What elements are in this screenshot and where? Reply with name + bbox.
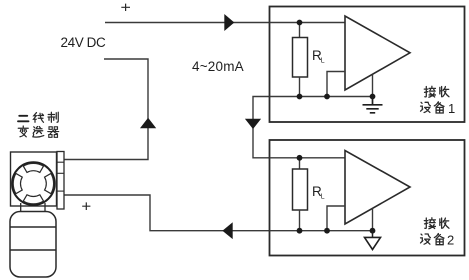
transmitter neck right line bbox=[44, 203, 46, 212]
wire device2 input top bbox=[270, 157, 346, 159]
label 接收 device1 bbox=[424, 86, 449, 97]
svg-text:L: L bbox=[321, 58, 325, 65]
wire U1 output to rail bbox=[372, 75, 374, 97]
transmitter head circle bbox=[12, 162, 55, 205]
junction dot device2 input bbox=[297, 155, 303, 161]
wire U1 inverting input bbox=[327, 72, 345, 97]
wire device1 input top bbox=[270, 22, 346, 24]
node + transmitter positive terminal bbox=[82, 202, 90, 210]
wire top supply line bbox=[105, 22, 270, 24]
junction dot RL2 bottom bbox=[297, 228, 303, 234]
arrow current direction right on top wire bbox=[224, 14, 234, 31]
resistor RL2 bbox=[293, 169, 308, 210]
wire RL1 top stub bbox=[299, 23, 301, 38]
terminal block divider 3 bbox=[57, 190, 64, 192]
wire RL1 bottom stub bbox=[299, 77, 301, 97]
transmitter terminal block bbox=[57, 152, 64, 210]
node + supply positive top bbox=[121, 4, 130, 11]
op-amp U2 bbox=[345, 151, 410, 225]
svg-text:2: 2 bbox=[447, 233, 454, 248]
transmitter head ring segment left bbox=[13, 174, 22, 194]
transmitter body section line 1 bbox=[10, 226, 56, 228]
arrow current direction down bbox=[245, 119, 261, 129]
transmitter head ring segment bottom bbox=[23, 195, 43, 204]
transmitter head ring segment top bbox=[23, 163, 43, 172]
wire device2 bottom rail bbox=[270, 230, 374, 232]
wire U2 inverting input bbox=[327, 206, 345, 231]
junction dot ground rail 2 bbox=[370, 228, 376, 234]
op-amp U1 bbox=[345, 16, 410, 90]
ground GND2 chassis triangle bbox=[372, 231, 374, 238]
junction dot ground rail 1 bbox=[370, 94, 376, 100]
svg-text:24V DC: 24V DC bbox=[61, 35, 107, 50]
receiving device 2 box bbox=[270, 140, 465, 256]
transmitter TX1 housing square bbox=[11, 152, 57, 206]
label 设备1 device1 bbox=[421, 101, 456, 116]
label 设备2 device2 bbox=[421, 233, 455, 248]
svg-text:4~20mA: 4~20mA bbox=[192, 59, 244, 74]
svg-text:L: L bbox=[321, 194, 325, 201]
wire device2 return rail to transmitter terminal 2 bbox=[64, 195, 270, 231]
receiving device 1 box bbox=[270, 7, 465, 123]
label 二线制 transmitter line 1 bbox=[18, 112, 58, 122]
wire device1 bottom rail bbox=[270, 96, 374, 98]
transmitter TX1 body capsule bbox=[10, 212, 56, 278]
resistor RL1 bbox=[293, 38, 308, 78]
label 变送器 transmitter line 2 bbox=[18, 126, 59, 137]
terminal block divider 2 bbox=[57, 172, 64, 174]
transmitter neck left line bbox=[20, 203, 22, 212]
junction dot RL1 bottom bbox=[297, 94, 303, 100]
label 接收 device2 bbox=[424, 218, 449, 229]
junction dot inverting rail 1 bbox=[324, 94, 330, 100]
svg-text:1: 1 bbox=[448, 101, 455, 116]
transmitter body section line 2 bbox=[10, 249, 56, 251]
arrow current direction up bbox=[140, 118, 156, 128]
wire 24V DC to transmitter terminal 1 bbox=[64, 59, 149, 160]
transmitter head ring segment right bbox=[45, 174, 54, 194]
wire U2 output to rail bbox=[372, 209, 374, 231]
arrow current direction left bbox=[222, 222, 232, 239]
wire RL2 bottom stub bbox=[299, 210, 301, 231]
ground GND1 earth symbol bbox=[363, 97, 383, 113]
terminal block divider 1 bbox=[57, 161, 64, 163]
wire RL2 top stub bbox=[299, 158, 301, 169]
junction dot inverting rail 2 bbox=[324, 228, 330, 234]
wire link device1 bottom rail to device2 input bbox=[253, 97, 270, 158]
junction dot device1 input bbox=[297, 20, 303, 26]
